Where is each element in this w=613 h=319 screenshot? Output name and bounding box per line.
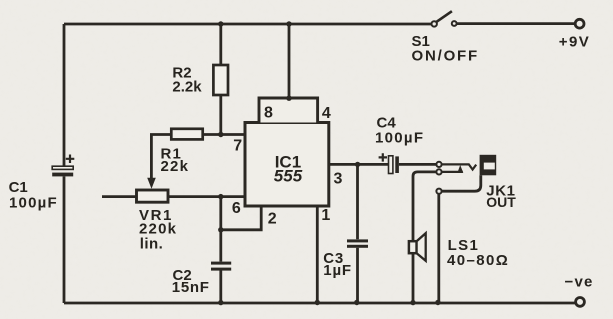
svg-text:4: 4 xyxy=(322,105,331,122)
svg-text:1µF: 1µF xyxy=(323,262,352,279)
svg-text:7: 7 xyxy=(233,138,242,155)
svg-text:22k: 22k xyxy=(161,158,190,175)
svg-text:2: 2 xyxy=(268,211,277,228)
svg-text:6: 6 xyxy=(232,200,241,217)
svg-text:8: 8 xyxy=(264,105,273,122)
svg-text:2.2k: 2.2k xyxy=(172,79,202,96)
svg-text:40–80Ω: 40–80Ω xyxy=(447,252,509,269)
svg-text:C1: C1 xyxy=(9,179,28,196)
svg-text:3: 3 xyxy=(334,171,343,188)
svg-text:+9V: +9V xyxy=(559,33,590,50)
svg-text:100µF: 100µF xyxy=(9,195,58,212)
svg-text:ON/OFF: ON/OFF xyxy=(412,48,479,65)
svg-text:100µF: 100µF xyxy=(375,129,424,146)
svg-text:1: 1 xyxy=(321,207,330,224)
svg-text:555: 555 xyxy=(274,166,303,185)
svg-text:lin.: lin. xyxy=(140,236,164,253)
svg-text:OUT: OUT xyxy=(486,194,516,210)
svg-text:15nF: 15nF xyxy=(172,279,210,296)
svg-text:−ve: −ve xyxy=(565,274,594,291)
